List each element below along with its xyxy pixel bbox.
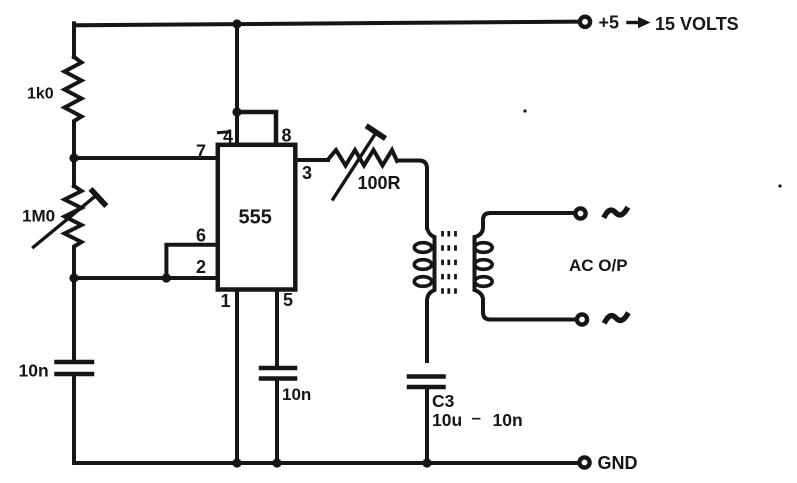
- svg-text:8: 8: [282, 126, 292, 146]
- svg-text:+5: +5: [599, 13, 620, 33]
- svg-text:4: 4: [223, 127, 233, 147]
- svg-text:2: 2: [196, 257, 206, 277]
- svg-text:10n: 10n: [493, 410, 523, 430]
- svg-text:10u: 10u: [432, 410, 462, 430]
- svg-text:1M0: 1M0: [22, 207, 55, 226]
- svg-text:10n: 10n: [19, 361, 49, 381]
- svg-text:GND: GND: [598, 453, 638, 473]
- svg-text:555: 555: [239, 207, 272, 229]
- svg-text:6: 6: [196, 226, 206, 246]
- svg-text:100R: 100R: [358, 173, 401, 193]
- svg-text:3: 3: [302, 163, 312, 183]
- svg-text:–: –: [472, 408, 481, 427]
- svg-text:C3: C3: [432, 391, 455, 411]
- svg-text:7: 7: [196, 142, 206, 162]
- svg-text:10n: 10n: [282, 385, 311, 404]
- svg-text:5: 5: [283, 290, 293, 310]
- svg-text:15 VOLTS: 15 VOLTS: [655, 14, 739, 34]
- svg-text:1k0: 1k0: [27, 86, 54, 103]
- svg-text:AC O/P: AC O/P: [569, 256, 628, 275]
- svg-text:1: 1: [221, 291, 231, 311]
